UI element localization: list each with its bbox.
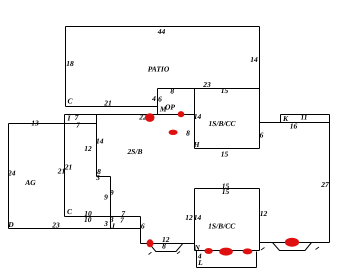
svg-text:14: 14 xyxy=(96,137,104,146)
red mark 7 xyxy=(243,248,253,254)
red mark 6 xyxy=(219,248,233,256)
svg-text:3: 3 xyxy=(103,219,108,228)
svg-text:18: 18 xyxy=(66,59,74,68)
AG bottom wall (23 ft) xyxy=(9,228,141,230)
lower 1S/B/CC top wall (15 ft) xyxy=(195,188,260,190)
svg-text:AG: AG xyxy=(24,178,36,187)
svg-text:11: 11 xyxy=(300,113,307,122)
svg-text:44: 44 xyxy=(157,27,166,36)
svg-text:2S/B: 2S/B xyxy=(126,147,142,156)
svg-text:1S/B/CC: 1S/B/CC xyxy=(208,119,236,128)
svg-text:6: 6 xyxy=(260,131,264,140)
patio bottom wall (21 ft) xyxy=(66,106,158,108)
svg-text:K: K xyxy=(282,114,289,123)
svg-text:14: 14 xyxy=(250,55,258,64)
svg-text:12: 12 xyxy=(185,213,193,222)
svg-text:21: 21 xyxy=(103,98,112,107)
svg-text:24: 24 xyxy=(7,169,16,178)
red mark 8 xyxy=(285,238,299,247)
svg-text:15: 15 xyxy=(221,86,229,95)
svg-text:9: 9 xyxy=(110,188,114,197)
AG left wall (24 ft) xyxy=(8,124,10,229)
patio top wall (44 ft) xyxy=(66,26,260,28)
svg-text:8: 8 xyxy=(186,129,190,138)
red mark 1 xyxy=(145,113,154,122)
svg-text:H: H xyxy=(193,140,201,149)
svg-text:12: 12 xyxy=(260,209,268,218)
svg-text:14: 14 xyxy=(194,213,202,222)
svg-text:16: 16 xyxy=(290,122,298,131)
svg-text:7: 7 xyxy=(76,121,80,130)
svg-text:OP: OP xyxy=(165,102,175,111)
svg-text:15: 15 xyxy=(221,150,229,159)
L-box bottom edge xyxy=(197,267,257,269)
L-box left edge (4 ft) xyxy=(196,251,198,268)
2S/B top wall / OP bottom edge xyxy=(65,114,195,116)
svg-text:12: 12 xyxy=(84,144,92,153)
red mark 2 xyxy=(178,111,185,117)
right wall: patio + upper 1S/B/CC (14 ft) xyxy=(259,27,261,149)
svg-text:6: 6 xyxy=(141,222,145,231)
red mark 3 xyxy=(169,130,178,135)
red mark 5 xyxy=(204,248,212,254)
svg-text:3: 3 xyxy=(95,173,100,182)
patio lower-right wall (23 ft) / 1S-B-CC top (15 ft) xyxy=(158,88,260,90)
svg-text:8: 8 xyxy=(170,87,174,96)
L-box right edge xyxy=(256,252,258,268)
2S/B jog (3 ft) xyxy=(97,176,111,178)
right boundary wall (27 ft) xyxy=(329,115,331,243)
svg-text:L: L xyxy=(197,258,203,267)
vertical through C-line (9 & 3 ft) xyxy=(110,177,112,229)
hatch ticks left stoop xyxy=(149,252,181,255)
right stoop trapezoid xyxy=(273,243,312,251)
svg-text:21: 21 xyxy=(64,163,73,172)
patio left wall (18 ft) xyxy=(65,27,67,107)
left stoop trapezoid xyxy=(149,243,183,251)
svg-text:9: 9 xyxy=(104,193,108,202)
red mark 4 xyxy=(147,239,154,247)
vertical edge (6 ft) to driveway line xyxy=(140,217,142,244)
upper 1S/B/CC left wall / OP right edge xyxy=(194,89,196,149)
connector line (16 ft) xyxy=(260,122,330,124)
hatch ticks right stoop xyxy=(261,247,319,250)
svg-text:15: 15 xyxy=(222,187,230,196)
svg-text:4: 4 xyxy=(151,94,156,103)
patio step / OP left edge (4 & 6 ft) xyxy=(157,89,159,115)
lower 1S/B/CC bottom wall xyxy=(195,250,260,252)
C-line: 2S/B bottom (10 ft) + 7 ft edge xyxy=(65,216,141,218)
upper 1S/B/CC bottom wall (15 ft) xyxy=(195,148,260,150)
svg-text:1S/B/CC: 1S/B/CC xyxy=(208,221,236,230)
svg-text:8: 8 xyxy=(162,242,166,251)
svg-text:13: 13 xyxy=(31,119,39,128)
svg-text:PATIO: PATIO xyxy=(148,65,170,74)
lower 1S/B/CC right wall (12 ft) xyxy=(259,189,261,251)
svg-text:23: 23 xyxy=(202,80,211,89)
svg-text:D: D xyxy=(7,220,14,229)
svg-text:J: J xyxy=(110,222,115,231)
svg-text:10: 10 xyxy=(84,215,92,224)
2S/B interior vertical (12/14 ft) xyxy=(96,115,98,177)
svg-text:27: 27 xyxy=(320,180,329,189)
svg-text:6: 6 xyxy=(158,94,162,103)
right driveway line xyxy=(260,242,330,244)
svg-text:23: 23 xyxy=(51,221,60,230)
svg-text:14: 14 xyxy=(194,112,202,121)
svg-text:7: 7 xyxy=(120,215,124,224)
2S/B left wall (21 ft) xyxy=(64,115,66,217)
K strip top edge (11 ft) xyxy=(281,114,330,116)
left driveway line (12 ft) xyxy=(141,243,195,245)
lower 1S/B/CC left wall (12/14 ft) xyxy=(194,189,196,251)
K strip left edge xyxy=(280,115,282,123)
AG top wall (13 ft) + 7 ft edge xyxy=(9,123,97,125)
